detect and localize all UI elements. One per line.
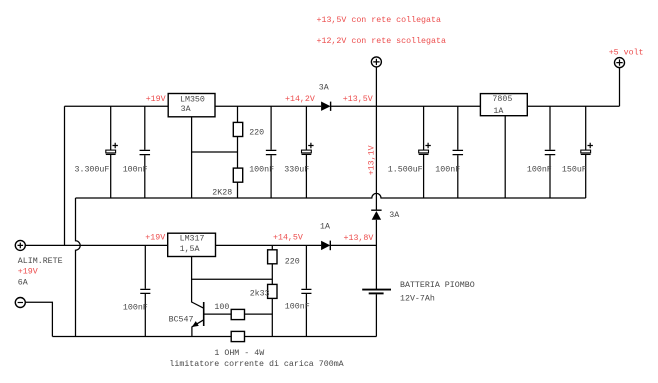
diode D2 3A battery to rail (371, 210, 399, 220)
svg-text:100nF: 100nF (123, 165, 148, 174)
wire ADJ2 (192, 278, 273, 280)
bottom rail left (52, 336, 231, 338)
svg-text:+14,2V: +14,2V (285, 95, 315, 104)
resistor R6 1 OHM (231, 331, 244, 341)
resistor R1 220 (233, 106, 264, 168)
wire +14,2V rail (215, 105, 321, 107)
svg-text:3A: 3A (319, 83, 329, 92)
capacitor C6 100nF (435, 106, 463, 198)
connector +5 volt (609, 47, 644, 67)
resistor R5 100 (214, 303, 244, 320)
svg-text:+19V: +19V (145, 234, 165, 243)
ground rail with hop (76, 193, 586, 198)
svg-text:+13,5V con rete collegata: +13,5V con rete collegata (317, 15, 441, 25)
svg-text:220: 220 (285, 258, 300, 267)
wire battery riser upper (375, 106, 377, 209)
svg-text:LM317: LM317 (180, 234, 205, 243)
svg-text:+19V: +19V (146, 95, 166, 104)
wire base (204, 313, 232, 315)
wire left drop from +19V rail to ALIM + (64, 106, 66, 245)
capacitor C1 3.300uF (75, 106, 118, 198)
svg-text:6A: 6A (18, 279, 28, 288)
svg-text:100nF: 100nF (123, 303, 148, 312)
capacitor C5 1.500uF (388, 106, 431, 198)
svg-text:+13,8V: +13,8V (344, 234, 374, 243)
svg-text:12V-7Ah: 12V-7Ah (400, 294, 435, 304)
capacitor C8 150uF (562, 106, 593, 198)
svg-text:+13,1V: +13,1V (368, 145, 377, 175)
connector ALIM minus (15, 298, 25, 308)
wire U1 ground pin (191, 117, 193, 198)
svg-text:1 OHM - 4W: 1 OHM - 4W (214, 349, 264, 358)
wire U1 ADJ (192, 151, 238, 153)
svg-text:100nF: 100nF (285, 303, 310, 312)
svg-text:+5 volt: +5 volt (609, 47, 644, 57)
svg-text:7805: 7805 (492, 95, 512, 104)
wire battery riser lower (375, 220, 377, 289)
bottom rail right (245, 336, 377, 338)
svg-text:100nF: 100nF (527, 165, 552, 174)
diode D3 1A (320, 223, 330, 251)
wire +14,5V (216, 244, 322, 246)
wire +5V riser (619, 67, 621, 106)
svg-text:100nF: 100nF (249, 165, 274, 174)
svg-text:1A: 1A (320, 223, 330, 232)
svg-text:150uF: 150uF (562, 165, 587, 174)
capacitor C4 330uF (284, 106, 313, 198)
wire +13,8V (330, 244, 376, 246)
op-amp U1 LM350 regulator (168, 94, 215, 117)
wire U2 ground pin (504, 116, 506, 198)
wire plus input (25, 244, 168, 246)
svg-text:100nF: 100nF (435, 165, 460, 174)
resistor R4 2k33 (250, 284, 277, 336)
battery B1 (362, 281, 475, 337)
svg-text:limitatore corrente di carica: limitatore corrente di carica 700mA (169, 359, 343, 369)
wire minus input (25, 302, 52, 336)
capacitor C3 100nF (249, 106, 276, 198)
capacitor C9 100nF (123, 245, 150, 336)
diode D1 3A (319, 83, 331, 111)
capacitor C7 100nF (527, 106, 555, 198)
svg-text:+14,5V: +14,5V (273, 234, 303, 243)
svg-text:1.500uF: 1.500uF (388, 165, 423, 174)
resistor R2 2K28 (212, 168, 242, 198)
svg-text:LM350: LM350 (180, 95, 205, 104)
svg-text:220: 220 (249, 129, 264, 138)
svg-text:1A: 1A (493, 107, 503, 116)
resistor R3 220 (268, 245, 300, 284)
wire connector to rail (375, 67, 377, 106)
svg-text:1,5A: 1,5A (180, 245, 200, 254)
wire U3 ADJ pin drop (191, 257, 193, 303)
connector +13,5V output (371, 57, 381, 67)
svg-text:3A: 3A (181, 105, 191, 114)
op-amp U2 7805 regulator (480, 94, 527, 116)
wire +13,5V rail (331, 105, 620, 107)
svg-text:ALIM.RETE: ALIM.RETE (18, 257, 63, 266)
svg-text:BATTERIA PIOMBO: BATTERIA PIOMBO (400, 281, 475, 290)
svg-text:100: 100 (214, 303, 229, 312)
svg-text:+13,5V: +13,5V (343, 95, 373, 104)
svg-text:3A: 3A (389, 211, 399, 220)
svg-text:2K28: 2K28 (212, 188, 232, 197)
svg-text:+19V: +19V (18, 267, 38, 276)
svg-text:2k33: 2k33 (250, 289, 270, 299)
svg-text:BC547: BC547 (169, 316, 194, 325)
svg-text:330uF: 330uF (284, 165, 309, 174)
connector ALIM plus (15, 240, 25, 250)
wire ground drop with hop (76, 198, 81, 337)
op-amp U3 LM317 regulator (168, 233, 216, 256)
svg-text:+12,2V con rete scollegata: +12,2V con rete scollegata (317, 36, 446, 46)
capacitor C10 100nF (285, 245, 312, 336)
wire base to sense (245, 313, 273, 315)
svg-text:3.300uF: 3.300uF (75, 165, 110, 174)
capacitor C2 100nF (123, 106, 150, 198)
transistor Q1 BC547 (169, 302, 204, 337)
wire +19V top rail (65, 105, 169, 107)
